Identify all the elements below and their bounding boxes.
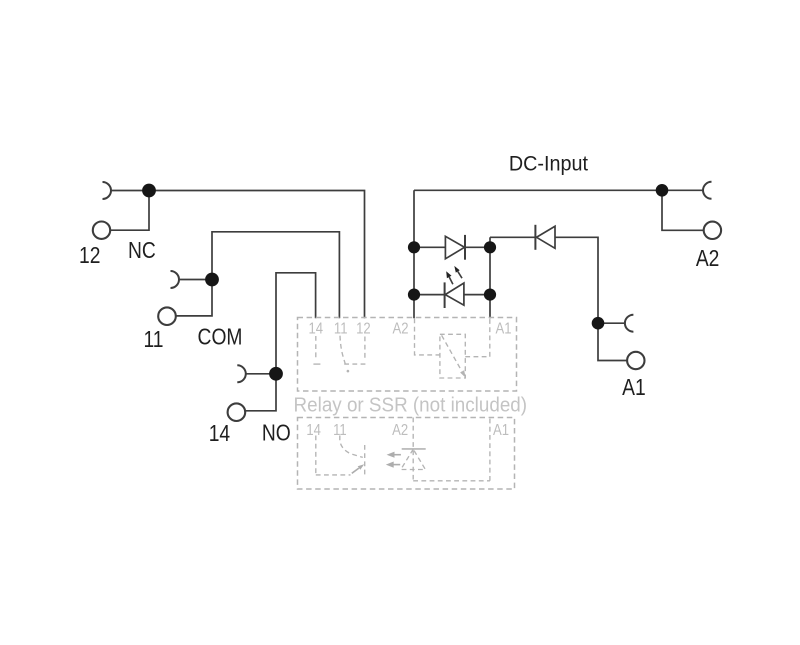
terminal A2 screw circle — [704, 222, 721, 239]
lower LED triangle — [401, 449, 426, 469]
relay box lower outline — [298, 418, 515, 490]
wire 11 stub — [179, 279, 212, 281]
SSR diagonal arrowhead — [460, 370, 466, 378]
wire 14 screw drop — [245, 374, 276, 411]
svg-text:A1: A1 — [622, 374, 646, 400]
upper pin 11 arm end dot — [347, 370, 350, 373]
svg-text:A2: A2 — [392, 320, 408, 337]
svg-text:COM: COM — [198, 324, 243, 350]
wire A1 screw drop — [598, 323, 627, 360]
node J7 — [484, 241, 496, 253]
node J9 — [592, 317, 605, 330]
terminal A2 socket arc — [703, 182, 712, 199]
node J1 — [142, 184, 156, 198]
wire 14 stub — [246, 373, 276, 375]
lower actuation arrowhead — [358, 464, 365, 470]
svg-text:NC: NC — [128, 237, 156, 263]
svg-text:A1: A1 — [493, 422, 509, 439]
terminal 14 socket arc — [237, 365, 246, 382]
LED D1 arrow 2 — [458, 271, 462, 278]
SSR to A1 link — [465, 356, 490, 358]
svg-text:11: 11 — [333, 422, 347, 439]
svg-text:A1: A1 — [495, 320, 511, 337]
diode D2 triangle — [445, 236, 464, 258]
upper A2 channel — [415, 319, 440, 355]
lower LED emission arrow 2 — [393, 464, 400, 466]
lower LED emission arrow 2 head — [386, 462, 394, 468]
lower LED emission arrow 1 — [394, 454, 401, 456]
node J6 — [408, 289, 420, 301]
wire COM: to relay pin 11 — [212, 232, 339, 318]
wire NC: terminal 12 to relay pin 12 — [111, 191, 365, 319]
wire DC-Input top rail — [414, 189, 703, 191]
lower A2 channel vertical — [412, 418, 414, 480]
diode D3 triangle — [537, 226, 556, 248]
lower actuation arrow shaft — [352, 468, 359, 473]
LED D1 arrow 1 — [449, 277, 453, 284]
terminal A1 socket arc — [625, 315, 634, 332]
wire 11 screw drop — [176, 280, 212, 316]
terminal 12 screw circle — [93, 222, 110, 239]
node J4 — [656, 184, 669, 197]
node J5 — [408, 241, 420, 253]
lower pin 12 position channel — [364, 445, 366, 477]
LED D1 triangle — [445, 283, 464, 305]
upper pin 12 fixed contact — [342, 363, 366, 365]
svg-text:14: 14 — [306, 422, 321, 439]
svg-text:A2: A2 — [696, 245, 720, 271]
lower LED to A1 bottom run — [413, 480, 490, 482]
upper pin 14 contact tick — [313, 363, 320, 365]
wire 12 screw drop — [111, 191, 149, 231]
svg-text:NO: NO — [262, 420, 291, 446]
wire diode D2 row — [414, 246, 490, 248]
terminal 11 screw circle — [158, 307, 176, 325]
svg-text:A2: A2 — [392, 422, 408, 439]
upper pin 11 contact arm — [340, 336, 345, 364]
upper pin 14 channel — [315, 336, 317, 360]
terminal 12 socket arc — [103, 182, 112, 199]
SSR diagonal — [442, 335, 462, 371]
relay box upper outline — [298, 318, 517, 490]
diode D2 cathode bar — [464, 235, 466, 260]
upper pin 12 channel — [364, 337, 366, 362]
wire bridge right vertical — [489, 237, 491, 318]
diode D3 cathode bar — [534, 225, 536, 250]
SSR rectangle — [440, 334, 465, 378]
lower LED emission arrow 1 head — [387, 452, 395, 458]
terminal 11 socket arc — [171, 271, 180, 288]
upper A1 channel — [489, 319, 491, 357]
wire diode D1 row — [414, 294, 490, 296]
LED D1 cathode bar — [444, 282, 446, 308]
svg-text:14: 14 — [209, 420, 230, 446]
lower pin 14 channel — [315, 436, 317, 474]
node J8 — [484, 289, 496, 301]
svg-text:12: 12 — [356, 320, 371, 337]
wire A1 junction stub to socket arc — [598, 322, 625, 324]
lower A1 channel — [489, 418, 491, 481]
svg-text:Relay or SSR (not included): Relay or SSR (not included) — [294, 394, 528, 417]
svg-text:DC-Input: DC-Input — [509, 152, 588, 176]
lower pin 14 bottom run — [316, 474, 351, 476]
node J2 — [205, 273, 219, 287]
wire bridge left vertical to relay pin A2 — [413, 190, 415, 318]
wire to diode D3 and A1 drop — [490, 237, 598, 323]
lower pin 11 contact arm — [340, 436, 363, 458]
terminal A1 screw circle — [627, 352, 644, 369]
node J3 — [269, 367, 283, 381]
svg-text:14: 14 — [309, 320, 324, 337]
terminal 14 screw circle — [228, 403, 246, 421]
lower LED cathode bar — [402, 448, 426, 450]
svg-text:11: 11 — [144, 326, 164, 352]
wire NO: to relay pin 14 — [276, 273, 316, 374]
label DC-Input — [79, 152, 719, 447]
svg-text:12: 12 — [79, 242, 100, 268]
wire A2 screw drop — [662, 190, 704, 230]
svg-text:11: 11 — [334, 320, 348, 337]
